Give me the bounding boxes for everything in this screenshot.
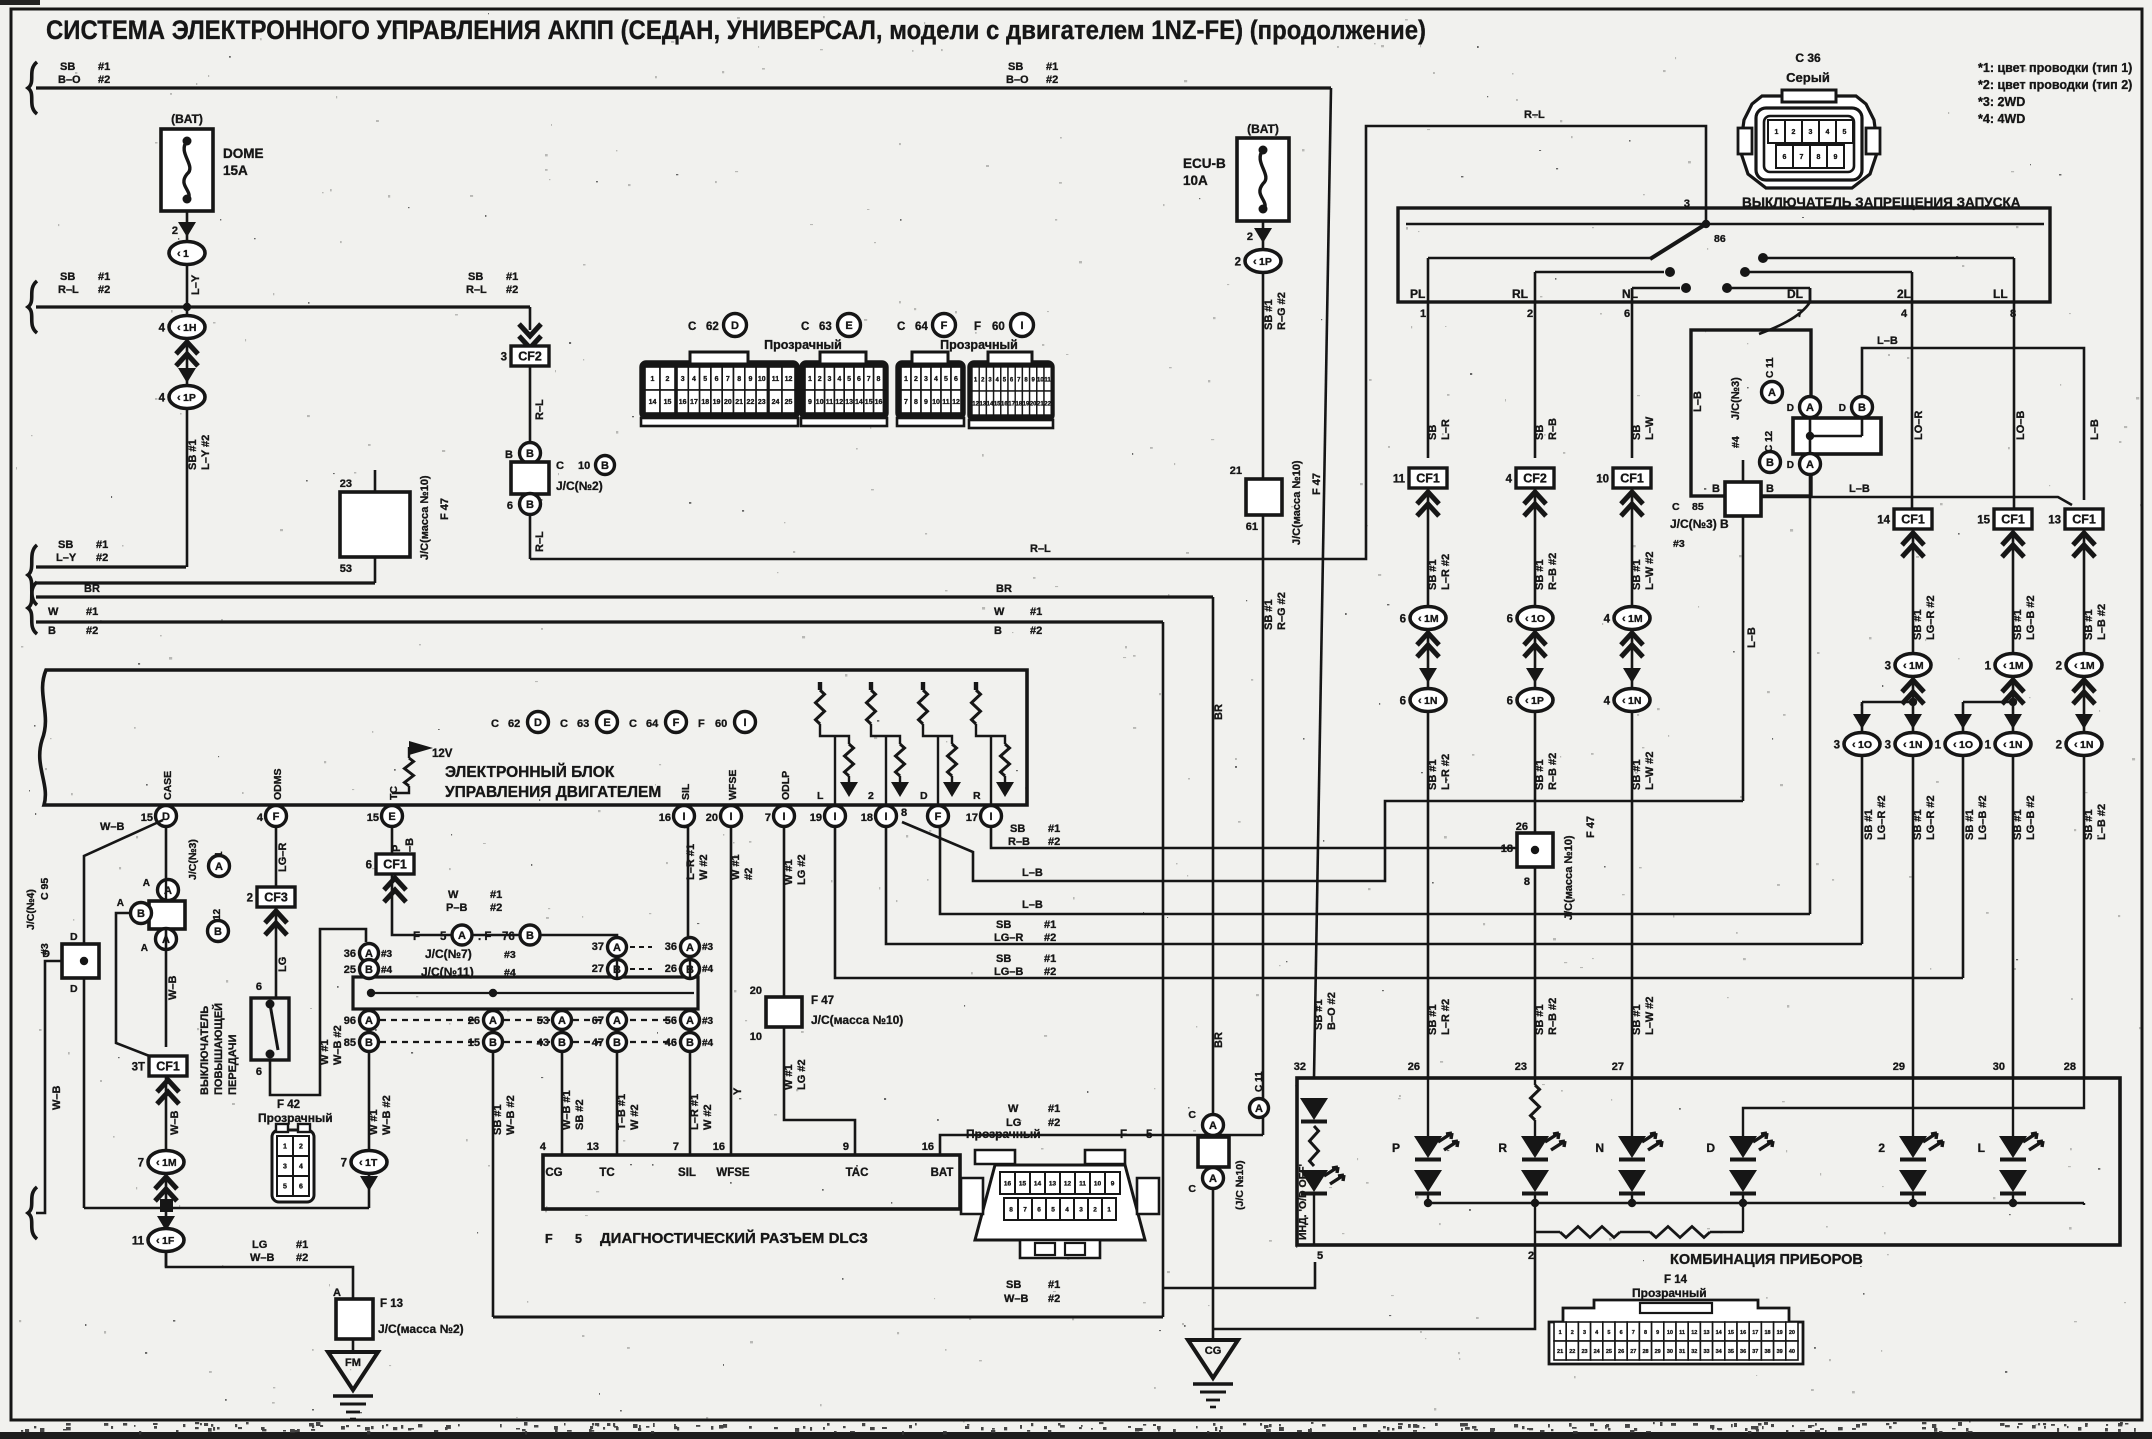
junction xyxy=(1628,1199,1636,1207)
wire SB R-G long down xyxy=(1262,515,1265,1135)
svg-text:J/C(№3): J/C(№3) xyxy=(1730,377,1742,420)
svg-text:7: 7 xyxy=(138,1158,144,1170)
svg-text:B: B xyxy=(1858,402,1866,414)
LED 2 upper xyxy=(1899,1136,1927,1158)
svg-text:7: 7 xyxy=(765,812,771,824)
svg-text:SB #1: SB #1 xyxy=(1631,1004,1643,1035)
svg-text:32: 32 xyxy=(1691,1349,1697,1355)
svg-text:LG–R #2: LG–R #2 xyxy=(1925,795,1937,840)
svg-text:9: 9 xyxy=(924,399,928,406)
svg-text:5: 5 xyxy=(1146,1129,1153,1141)
svg-text:2: 2 xyxy=(247,893,253,905)
connector 1O pin 6 xyxy=(1517,607,1553,630)
svg-text:25: 25 xyxy=(344,964,356,976)
svg-text:6: 6 xyxy=(857,376,861,383)
svg-text:BR: BR xyxy=(84,583,100,595)
svg-text:*3: 2WD: *3: 2WD xyxy=(1978,95,2025,109)
pins C36 row1 xyxy=(1768,120,1785,143)
svg-text:SB: SB xyxy=(1534,425,1546,440)
svg-text:1: 1 xyxy=(1775,129,1779,136)
svg-text:SIL: SIL xyxy=(680,783,692,800)
svg-text:‹: ‹ xyxy=(1622,613,1626,625)
svg-text:60: 60 xyxy=(992,321,1005,333)
svg-text:BR: BR xyxy=(996,583,1012,595)
svg-text:R–G #2: R–G #2 xyxy=(1276,592,1288,630)
pins C36 row2 xyxy=(1776,145,1793,168)
wire xyxy=(2012,676,2015,732)
svg-text:T–B #1: T–B #1 xyxy=(616,1094,628,1130)
wire bus SB/R-L xyxy=(36,305,530,308)
connector 1M pin 7 xyxy=(148,1151,184,1174)
svg-text:A: A xyxy=(686,1015,694,1027)
wire DL output down to L-B run xyxy=(1809,474,1812,914)
scanner edge band bottom xyxy=(0,1432,2152,1439)
svg-text:J/C(масса №2): J/C(масса №2) xyxy=(378,1322,464,1336)
svg-text:W–B #1: W–B #1 xyxy=(561,1090,573,1130)
svg-text:5: 5 xyxy=(703,376,707,383)
wire down to cluster xyxy=(1912,756,1915,1078)
connector C A lower xyxy=(1203,1168,1224,1189)
brace bus SB B-O xyxy=(28,62,37,114)
svg-text:27: 27 xyxy=(1630,1349,1636,1355)
wire down to cluster xyxy=(2083,756,2086,1078)
arrow into CF3 xyxy=(265,911,287,935)
wire xyxy=(1427,630,1430,689)
svg-text:A: A xyxy=(141,943,148,954)
svg-text:1N: 1N xyxy=(1909,739,1922,751)
wire to J/C masса 10 pin 53 xyxy=(374,557,377,583)
svg-text:9: 9 xyxy=(748,376,752,383)
svg-text:‹: ‹ xyxy=(177,322,181,334)
svg-text:8: 8 xyxy=(901,807,907,819)
svg-text:Прозрачный: Прозрачный xyxy=(1632,1286,1707,1300)
wire xyxy=(1534,488,1537,607)
svg-text:. F: . F xyxy=(478,931,491,943)
wire xyxy=(2083,1203,2085,1205)
svg-text:60: 60 xyxy=(715,718,727,730)
wire xyxy=(1631,1194,1633,1203)
wire bus SB/L-Y lower xyxy=(36,581,375,584)
svg-text:21: 21 xyxy=(735,399,743,406)
svg-text:CF2: CF2 xyxy=(1523,472,1547,486)
pins C62 mid xyxy=(677,367,688,390)
resistor xyxy=(919,690,928,724)
wire xyxy=(1742,1194,1744,1203)
svg-text:10: 10 xyxy=(1094,1181,1102,1188)
diode L lower xyxy=(1999,1170,2027,1192)
svg-text:R–L: R–L xyxy=(534,531,546,552)
svg-text:W #1: W #1 xyxy=(319,1039,331,1065)
svg-text:16: 16 xyxy=(659,812,671,824)
svg-text:5: 5 xyxy=(847,376,851,383)
wire xyxy=(1912,529,1915,654)
svg-text:CASE: CASE xyxy=(162,771,174,800)
svg-text:BR: BR xyxy=(1213,704,1225,720)
svg-text:L–W #2: L–W #2 xyxy=(1644,551,1656,590)
junction block J/C(№2) xyxy=(511,462,549,494)
wire LG / W-B to J/C масса №2 xyxy=(166,1252,353,1299)
start inhibit switch box xyxy=(1398,208,2050,302)
svg-text:6: 6 xyxy=(256,1066,262,1078)
arrow into CF1 15 xyxy=(2002,533,2024,557)
svg-text:L–W #2: L–W #2 xyxy=(1644,751,1656,790)
wire to cluster pin 5 xyxy=(1163,1262,1315,1288)
arrow into 1M xyxy=(2002,680,2024,704)
diode O/D xyxy=(1300,1098,1328,1120)
arrow xyxy=(840,782,858,797)
wire xyxy=(871,724,900,744)
svg-text:4: 4 xyxy=(1604,696,1611,708)
ground CG xyxy=(1188,1340,1238,1378)
arrow into 1H xyxy=(176,342,198,366)
connector CF1 pin 6 xyxy=(376,854,414,874)
wire LG xyxy=(275,907,278,998)
wire SB R-G upper xyxy=(1262,272,1265,479)
svg-text:A: A xyxy=(1209,1120,1217,1132)
svg-text:21: 21 xyxy=(1230,465,1242,477)
junction in box xyxy=(1531,846,1539,854)
wire P-B xyxy=(391,827,394,854)
svg-text:11: 11 xyxy=(1079,1181,1086,1188)
svg-text:R–L: R–L xyxy=(1030,543,1051,555)
svg-text:#3: #3 xyxy=(381,949,393,960)
ground hatch CG xyxy=(1193,1382,1233,1385)
svg-text:C: C xyxy=(1188,1183,1196,1195)
svg-text:4: 4 xyxy=(159,393,166,405)
svg-text:8: 8 xyxy=(914,399,918,406)
switch movable arm xyxy=(1650,224,1706,259)
svg-text:A: A xyxy=(558,1015,566,1027)
svg-text:#2: #2 xyxy=(96,552,108,564)
svg-text:D: D xyxy=(1706,1141,1715,1155)
wire 1H to 1P xyxy=(186,338,189,386)
svg-text:11: 11 xyxy=(826,399,834,406)
svg-text:11: 11 xyxy=(942,399,950,406)
svg-text:L–R #2: L–R #2 xyxy=(1440,554,1452,590)
svg-text:‹: ‹ xyxy=(359,1157,363,1169)
svg-text:D: D xyxy=(70,983,78,995)
pins C62 left xyxy=(645,367,660,390)
svg-text:34: 34 xyxy=(1716,1349,1723,1355)
wire to ground xyxy=(352,1339,355,1352)
svg-text:35: 35 xyxy=(1728,1349,1734,1355)
svg-text:W–B #2: W–B #2 xyxy=(381,1095,393,1135)
arrow into 1O xyxy=(1853,714,1871,729)
svg-text:‹: ‹ xyxy=(1253,256,1257,268)
svg-text:11: 11 xyxy=(772,376,780,383)
svg-text:SIL: SIL xyxy=(678,1167,696,1179)
svg-text:A: A xyxy=(143,878,150,889)
svg-text:1P: 1P xyxy=(1259,256,1272,268)
contact NL open xyxy=(1681,283,1691,293)
wire 37A-27B xyxy=(616,956,618,977)
svg-text:9: 9 xyxy=(843,1141,849,1153)
svg-text:F: F xyxy=(935,811,942,823)
svg-text:14: 14 xyxy=(649,399,657,406)
svg-text:‹: ‹ xyxy=(1852,739,1856,751)
diode 2 lower xyxy=(1899,1170,1927,1192)
resistor xyxy=(948,744,957,776)
svg-text:ПЕРЕДАЧИ: ПЕРЕДАЧИ xyxy=(227,1034,239,1095)
svg-text:LO–B: LO–B xyxy=(2015,411,2027,440)
svg-text:1: 1 xyxy=(651,376,655,383)
svg-text:A: A xyxy=(1768,387,1776,399)
svg-text:85: 85 xyxy=(344,1037,356,1049)
svg-text:WFSE: WFSE xyxy=(716,1167,750,1179)
svg-text:W #2: W #2 xyxy=(702,1104,714,1130)
svg-text:6: 6 xyxy=(299,1184,303,1191)
diode D lower xyxy=(1729,1170,1757,1192)
svg-text:1: 1 xyxy=(1985,740,1992,752)
svg-text:LG–R #2: LG–R #2 xyxy=(1876,795,1888,840)
svg-text:SB: SB xyxy=(60,61,75,73)
svg-text:F: F xyxy=(413,931,420,943)
fuse ECU-B 10A xyxy=(1237,138,1289,221)
pins F5 row2 xyxy=(1004,1198,1018,1220)
svg-text:3: 3 xyxy=(1079,1207,1083,1214)
svg-text:3: 3 xyxy=(1885,740,1891,752)
svg-text:TC: TC xyxy=(388,786,400,800)
svg-text:10: 10 xyxy=(750,1031,762,1043)
svg-text:A: A xyxy=(365,1015,373,1027)
switch row RL xyxy=(1535,271,1664,274)
connector CF3 pin 2 xyxy=(257,887,295,907)
wire SB W-B bottom run xyxy=(493,1316,1163,1319)
svg-text:R: R xyxy=(1498,1141,1507,1155)
svg-text:23: 23 xyxy=(758,399,766,406)
wire branch xyxy=(1963,701,2013,704)
svg-text:B–O: B–O xyxy=(1006,74,1029,86)
wire xyxy=(165,1173,168,1267)
arrow into CF1 6 xyxy=(384,878,406,902)
svg-text:6: 6 xyxy=(1400,696,1406,708)
svg-text:11: 11 xyxy=(132,1236,145,1248)
svg-text:B: B xyxy=(526,448,534,460)
wire SB B-O riser to cluster 32 xyxy=(1314,88,1331,1078)
svg-text:W–B: W–B xyxy=(169,1111,181,1136)
svg-text:L–Y: L–Y xyxy=(56,552,77,564)
svg-text:53: 53 xyxy=(340,563,352,575)
arrow into 1N xyxy=(2004,714,2022,729)
svg-text:PL: PL xyxy=(1410,287,1425,301)
svg-text:ODMS: ODMS xyxy=(272,769,284,801)
svg-text:2: 2 xyxy=(1093,1207,1097,1214)
svg-text:‹: ‹ xyxy=(2074,739,2078,751)
wire down to cluster pin 23 xyxy=(1534,712,1537,1078)
svg-text:L–B: L–B xyxy=(2089,419,2101,440)
svg-text:I: I xyxy=(884,811,887,823)
connector 1O pin 3 xyxy=(1844,733,1880,756)
svg-text:7: 7 xyxy=(867,376,871,383)
wire SB LG-R run xyxy=(886,827,1862,944)
svg-text:C 36: C 36 xyxy=(1795,51,1821,65)
svg-text:26: 26 xyxy=(665,963,677,975)
svg-text:39: 39 xyxy=(1777,1349,1783,1355)
connector 1N pin 4 xyxy=(1614,689,1650,712)
svg-text:CF3: CF3 xyxy=(264,891,288,905)
connector 1N pin 3 xyxy=(1895,733,1931,756)
wire R-L long route to start-inhibit switch xyxy=(530,126,1706,559)
svg-text:J/C(масса №10): J/C(масса №10) xyxy=(419,475,431,560)
svg-text:1: 1 xyxy=(1559,1330,1562,1336)
svg-text:14: 14 xyxy=(855,399,863,406)
svg-text:SB #1: SB #1 xyxy=(1863,809,1875,840)
wire 2L drop xyxy=(1911,272,1914,302)
svg-text:(BAT): (BAT) xyxy=(1247,122,1279,136)
svg-text:I: I xyxy=(782,811,785,823)
arrow into CF1 14 xyxy=(1902,533,1924,557)
wire ground rail right xyxy=(173,1207,369,1210)
svg-text:C: C xyxy=(688,321,696,333)
switch row DL xyxy=(1727,287,1810,290)
internal pull-up network pin x=938 xyxy=(921,682,925,690)
svg-text:C: C xyxy=(897,321,905,333)
wire to CF1 3T xyxy=(116,913,152,1057)
svg-text:LG–B #2: LG–B #2 xyxy=(1977,795,1989,840)
svg-text:12: 12 xyxy=(1691,1330,1697,1336)
ECU pin F (D) xyxy=(928,806,949,827)
svg-text:L: L xyxy=(817,790,824,802)
svg-text:5: 5 xyxy=(944,376,948,383)
connector B left xyxy=(131,903,152,924)
junction block J/C(масса №10) F47 centre xyxy=(1246,479,1282,515)
svg-text:2: 2 xyxy=(1878,1141,1885,1155)
svg-text:D: D xyxy=(42,948,50,960)
arrow into 1M xyxy=(155,1177,177,1201)
svg-text:14: 14 xyxy=(1034,1181,1042,1188)
svg-text:B: B xyxy=(214,926,222,938)
svg-text:#2: #2 xyxy=(1048,1293,1060,1305)
svg-text:SB #1: SB #1 xyxy=(1631,559,1643,590)
svg-text:#1: #1 xyxy=(1046,61,1058,73)
wire L-B from square to CF1 13 xyxy=(1761,497,2072,505)
svg-text:6: 6 xyxy=(256,981,262,993)
wire down to cluster xyxy=(2012,756,2015,1078)
svg-text:86: 86 xyxy=(1714,233,1726,245)
connector C12 B xyxy=(1760,452,1781,473)
svg-text:1: 1 xyxy=(1420,308,1426,320)
svg-text:1: 1 xyxy=(183,248,189,260)
svg-text:7: 7 xyxy=(904,399,908,406)
svg-text:11: 11 xyxy=(1679,1330,1685,1336)
svg-text:4: 4 xyxy=(159,323,166,335)
svg-text:1: 1 xyxy=(283,1144,287,1151)
LED L upper xyxy=(1999,1136,2027,1158)
svg-text:10: 10 xyxy=(816,399,824,406)
connector 1H xyxy=(169,316,205,339)
arrow into CF1 13 xyxy=(2073,533,2095,557)
svg-text:12: 12 xyxy=(1064,1181,1072,1188)
svg-text:SB: SB xyxy=(1631,425,1643,440)
svg-text:10A: 10A xyxy=(1183,173,1208,188)
connector 1M pin 6 xyxy=(1410,607,1446,630)
arrow into CF1 3T xyxy=(157,1080,179,1104)
svg-text:10: 10 xyxy=(1596,474,1609,486)
connector CF1 pin 13 xyxy=(2065,509,2103,529)
connector CF1 pin 10 xyxy=(1613,468,1651,488)
svg-text:‹: ‹ xyxy=(1622,695,1626,707)
svg-text:W–B: W–B xyxy=(51,1086,63,1111)
svg-text:SB #1: SB #1 xyxy=(1912,609,1924,640)
svg-text:L–R #2: L–R #2 xyxy=(1440,999,1452,1035)
svg-text:SB #1: SB #1 xyxy=(2012,609,2024,640)
connector D-B xyxy=(1852,397,1873,418)
svg-text:15: 15 xyxy=(1977,515,1990,527)
svg-text:RL: RL xyxy=(1512,287,1528,301)
svg-text:‹: ‹ xyxy=(2003,660,2007,672)
svg-text:10: 10 xyxy=(1037,378,1044,384)
svg-text:5: 5 xyxy=(1317,1250,1323,1262)
svg-text:SB: SB xyxy=(1008,61,1023,73)
arrow into 1M xyxy=(1417,633,1439,657)
svg-text:ECU-B: ECU-B xyxy=(1183,156,1226,171)
svg-text:#4: #4 xyxy=(702,1038,714,1049)
connector CF1 pin 11 xyxy=(1409,468,1447,488)
svg-text:28: 28 xyxy=(1642,1349,1648,1355)
junction square C85 J/C(№3) B xyxy=(1725,482,1761,516)
connector 1P (ECU-B) xyxy=(1245,250,1281,273)
svg-text:J/C(№3): J/C(№3) xyxy=(187,839,199,880)
svg-text:15: 15 xyxy=(1019,1181,1027,1188)
svg-text:I: I xyxy=(1020,320,1023,332)
svg-text:B: B xyxy=(526,499,534,511)
svg-text:SB: SB xyxy=(58,539,73,551)
svg-text:W–B #2: W–B #2 xyxy=(332,1025,344,1065)
svg-text:SB #1: SB #1 xyxy=(1263,599,1275,630)
svg-text:B: B xyxy=(48,625,56,637)
svg-text:1N: 1N xyxy=(1424,695,1437,707)
svg-text:NL: NL xyxy=(1622,287,1638,301)
wire L-Y xyxy=(186,264,189,307)
wire Y WFSE to DLC3 xyxy=(730,827,733,1155)
svg-text:‹: ‹ xyxy=(1903,660,1907,672)
svg-text:21: 21 xyxy=(1557,1349,1563,1355)
svg-text:36: 36 xyxy=(1740,1349,1746,1355)
resistor xyxy=(845,744,854,776)
svg-text:R–L: R–L xyxy=(1524,109,1545,121)
svg-text:CG: CG xyxy=(1205,1345,1222,1357)
wire xyxy=(1912,676,1915,732)
junction xyxy=(1806,432,1814,440)
svg-text:2: 2 xyxy=(299,1144,303,1151)
svg-text:R–L: R–L xyxy=(466,284,487,296)
svg-text:3: 3 xyxy=(828,376,832,383)
svg-text:1: 1 xyxy=(808,376,812,383)
svg-text:1M: 1M xyxy=(1909,660,1924,672)
svg-text:–B: –B xyxy=(404,838,416,852)
svg-text:A: A xyxy=(1209,1173,1217,1185)
wire ground rail xyxy=(84,1207,160,1210)
svg-text:W: W xyxy=(994,606,1005,618)
svg-text:8: 8 xyxy=(1644,1330,1647,1336)
wire L–W #2 upper xyxy=(1631,302,1634,458)
svg-text:3: 3 xyxy=(1583,1330,1586,1336)
connector 1F pin 11 xyxy=(148,1229,184,1252)
connector 1N pin 1 xyxy=(1995,733,2031,756)
svg-text:SB #1: SB #1 xyxy=(1912,809,1924,840)
svg-text:C 11: C 11 xyxy=(1765,357,1776,378)
junction xyxy=(266,1000,275,1009)
svg-text:F: F xyxy=(698,718,705,730)
wire 36A-26B xyxy=(689,956,691,977)
svg-text:26: 26 xyxy=(1618,1349,1624,1355)
wire bus SB/L-Y upper xyxy=(36,565,186,568)
svg-text:SB: SB xyxy=(996,953,1011,965)
svg-text:7: 7 xyxy=(1023,1207,1027,1214)
svg-text:11: 11 xyxy=(1393,474,1406,486)
connector 1N pin 2 xyxy=(2066,733,2102,756)
wire bus SB/B-O xyxy=(36,86,1331,89)
